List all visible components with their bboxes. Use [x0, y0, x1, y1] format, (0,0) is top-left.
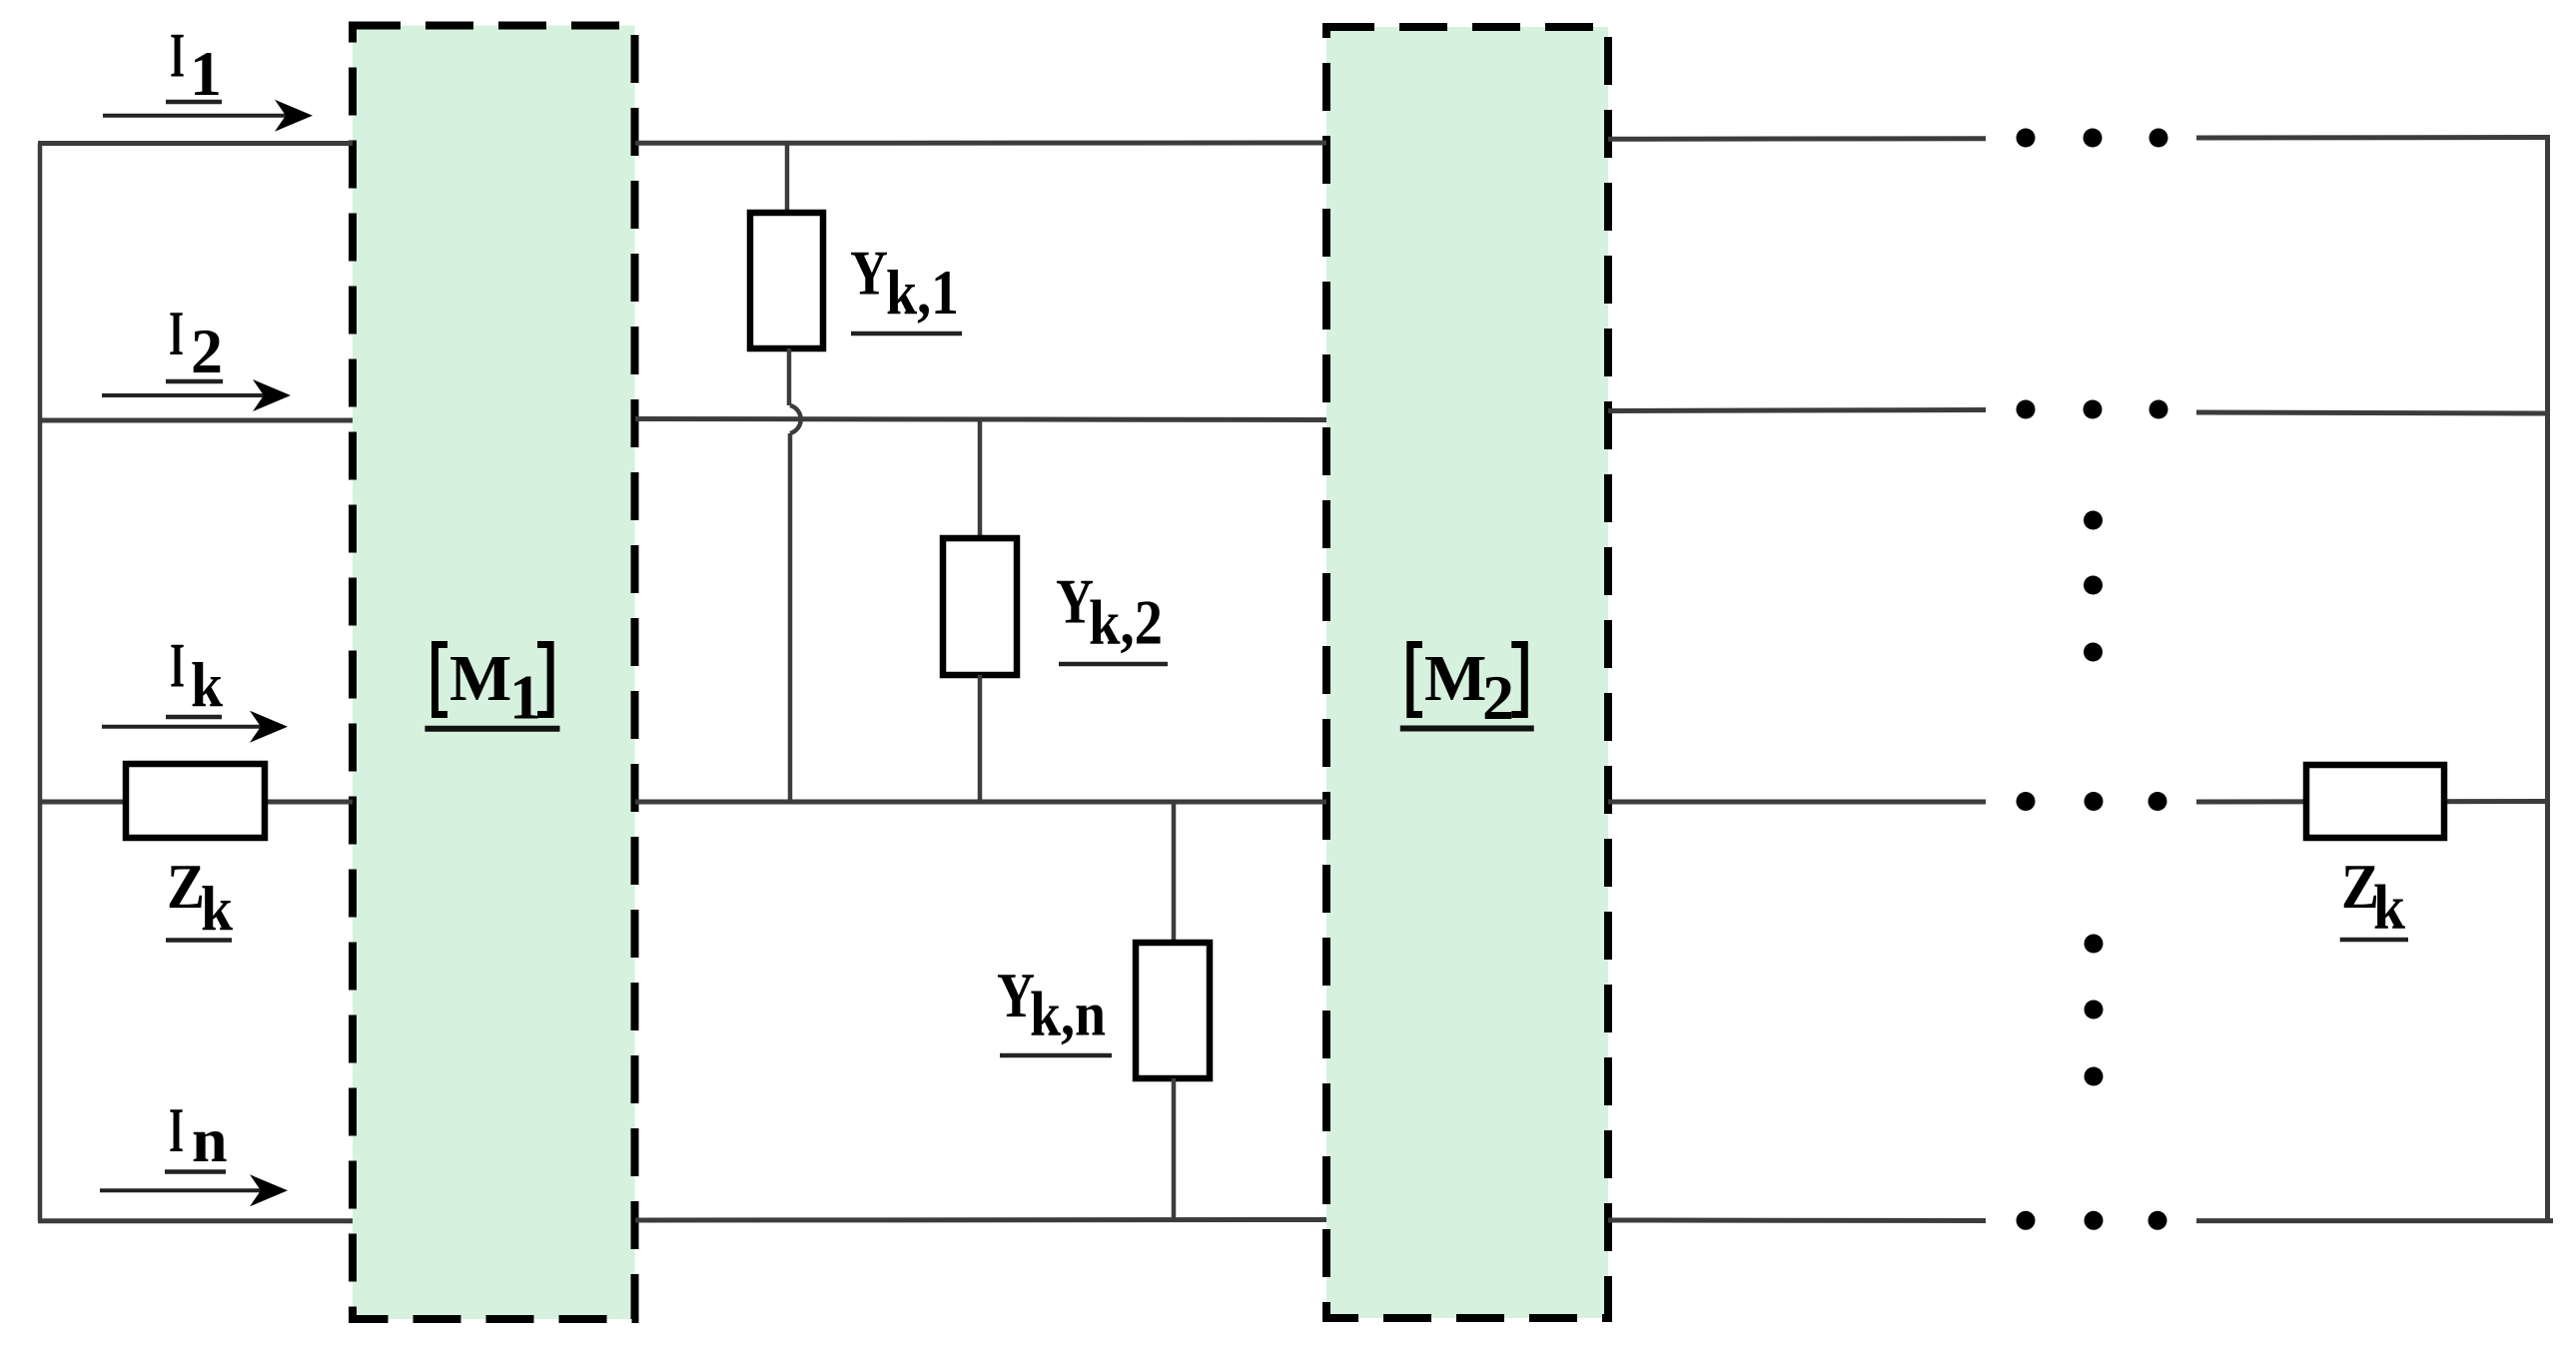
- wire 3 segment d: [2196, 799, 2550, 805]
- ellipsis dots wire 3: [2017, 792, 2167, 811]
- ellipsis dots wire 4: [2017, 1211, 2167, 1230]
- wire 4 (node n) segment a: [38, 1218, 353, 1223]
- svg-text:1: 1: [509, 662, 541, 733]
- svg-text:I: I: [170, 630, 185, 701]
- label Yk1: [850, 238, 962, 334]
- wire 3 segment c: [1608, 800, 1986, 805]
- wire 2 segment b: [635, 419, 1326, 420]
- svg-text:M: M: [1424, 642, 1486, 715]
- label In: [165, 1094, 228, 1175]
- label M2 bracket left: [1400, 641, 1534, 733]
- label I2: [166, 298, 223, 386]
- svg-text:Z: Z: [167, 851, 205, 922]
- admittance Ykn bottom stub: [1172, 1078, 1177, 1220]
- admittance Yk2 top stub: [978, 419, 983, 539]
- wire bus left vertical: [38, 144, 43, 1221]
- svg-text:k,2: k,2: [1089, 587, 1163, 658]
- wire 1 segment d: [2196, 135, 2550, 141]
- admittance Ykn box: [1136, 943, 1210, 1078]
- vertical ellipsis between wire 3 and 4: [2085, 935, 2104, 1086]
- wire 1 segment c: [1608, 136, 1986, 142]
- ellipsis dots wire 1: [2017, 129, 2168, 148]
- wire bus right vertical: [2545, 138, 2550, 1221]
- current arrow I2: [102, 379, 291, 411]
- two-port box M2 (green dashed): [1326, 27, 1608, 1318]
- admittance Yk1 box: [750, 213, 823, 348]
- admittance Yk1 top stub: [785, 142, 790, 213]
- wire hop over wire 2: [790, 405, 801, 433]
- svg-text:I: I: [170, 20, 185, 91]
- svg-text:k: k: [2373, 872, 2405, 943]
- svg-text:Y: Y: [850, 238, 888, 309]
- wire 4 segment b: [635, 1217, 1326, 1223]
- vertical ellipsis between wire 2 and 3: [2084, 511, 2103, 662]
- label Zk left: [166, 851, 233, 944]
- wire 2 segment a: [38, 418, 353, 423]
- label M1 bracket left: [425, 641, 559, 733]
- admittance Yk2 box: [943, 538, 1017, 675]
- svg-text:k,1: k,1: [886, 257, 959, 328]
- admittance Yk2 bottom stub: [978, 675, 983, 802]
- wire 1 segment a: [38, 141, 353, 146]
- wire 4 segment c: [1608, 1218, 1986, 1224]
- Yk1 lower wire to node k: [788, 433, 793, 802]
- wire 3 segment b: [635, 800, 1326, 805]
- svg-text:2: 2: [1482, 662, 1514, 733]
- svg-text:n: n: [192, 1104, 228, 1175]
- wire 2 segment c: [1608, 410, 1986, 411]
- two-port box M1 (green dashed): [353, 26, 635, 1320]
- wire 3 (node k) segment a: [38, 800, 353, 805]
- svg-text:M: M: [449, 642, 511, 715]
- svg-text:I: I: [169, 1094, 184, 1165]
- label Ik: [166, 630, 223, 721]
- svg-text:I: I: [169, 298, 184, 368]
- label Zk right: [2340, 851, 2408, 943]
- svg-text:2: 2: [191, 316, 223, 386]
- svg-text:k: k: [201, 873, 233, 944]
- wire 2 segment d: [2196, 412, 2550, 413]
- wire 4 segment d: [2196, 1218, 2553, 1223]
- svg-text:k: k: [191, 649, 223, 720]
- current arrow Ik: [102, 711, 288, 743]
- current arrow In: [100, 1174, 288, 1206]
- label Yk2: [1056, 566, 1168, 665]
- impedance Zk right box: [2306, 765, 2444, 838]
- current arrow I1: [103, 100, 313, 132]
- wire 1 segment b: [635, 141, 1326, 146]
- label I1: [166, 20, 222, 110]
- impedance Zk left box: [126, 764, 265, 838]
- svg-text:1: 1: [190, 38, 222, 109]
- admittance Ykn top stub: [1172, 802, 1177, 943]
- admittance Yk1 bottom stub: [787, 348, 792, 405]
- ellipsis dots wire 2: [2017, 400, 2168, 419]
- svg-text:k,n: k,n: [1030, 979, 1106, 1049]
- label Ykn: [997, 960, 1112, 1055]
